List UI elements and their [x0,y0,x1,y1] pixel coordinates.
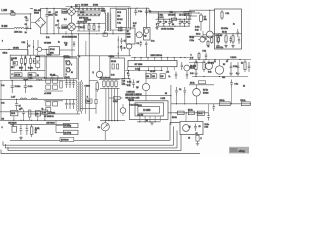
svg-text:BC548 1k: BC548 1k [84,19,91,21]
resistor R942 R943 pair [219,102,230,106]
resistor R111 [46,79,51,83]
svg-text:C5 1n: C5 1n [185,13,190,15]
component box U134 [12,126,17,132]
module outer box M801 [129,101,168,120]
wire [156,25,190,27]
IC102 [49,47,60,55]
capacitor C951b [194,124,197,132]
wire [145,71,147,84]
wire [0,81,2,121]
svg-text:1k: 1k [110,56,112,58]
component box U121 [122,79,130,85]
wire [44,77,63,79]
capacitor C802 [145,8,148,15]
transistor Q801 [136,32,142,38]
svg-text:C 22n: C 22n [190,40,195,42]
capacitor C871 [175,87,178,96]
resistor R105 [36,63,40,68]
svg-text:R 1k: R 1k [127,85,131,87]
transistor Q851 [184,65,190,71]
resistor R951 [196,135,199,141]
fuse F901 [11,13,15,16]
IC801 regulator [126,28,135,44]
capacitor C116 [72,99,75,109]
component box U131 [11,111,18,116]
module inner box [135,103,164,116]
wire [110,7,146,9]
svg-text:L7: L7 [29,45,31,47]
svg-text:500B: 500B [34,13,39,15]
transistor Q801b [127,44,132,49]
svg-text:C18: C18 [160,76,163,78]
svg-text:R 1 C 5: R 1 C 5 [158,17,163,19]
svg-text:1u: 1u [124,48,126,50]
wire [27,40,29,55]
wire [75,12,79,27]
transistor Q803 [142,83,149,90]
wire [146,8,148,27]
resistor R114 [53,85,58,89]
inductor L901 [14,27,24,28]
svg-text:1u: 1u [25,32,27,34]
svg-text:C2: C2 [196,133,198,135]
svg-text:RN 84: RN 84 [172,117,177,119]
enclosure line 3 [6,131,178,148]
transistor Q905 [183,125,190,132]
svg-text:C 1: C 1 [137,43,140,45]
capacitor C169 [168,19,171,26]
svg-text:R 22: R 22 [46,37,49,39]
capacitor C803 [140,41,143,47]
capacitor C113 [72,79,75,88]
wire [65,31,67,34]
wire [35,56,77,58]
svg-text:PS 1.5: PS 1.5 [117,19,122,21]
resistor R104 [36,56,40,61]
wire [111,88,113,120]
transistor Q131 [120,108,126,114]
wire [147,8,196,13]
wire [196,85,198,104]
wire [125,70,163,72]
wire [156,18,192,20]
wire [80,107,96,109]
svg-text:C 1uN: C 1uN [135,69,141,71]
svg-text:L 84: L 84 [166,71,169,73]
wire [56,120,64,132]
shield box SH2 [110,58,125,79]
svg-text:CN 704: CN 704 [64,56,70,58]
ground [155,26,158,29]
svg-text:CN 8: CN 8 [11,113,15,115]
svg-text:C3 R8 C4 100n: C3 R8 C4 100n [161,28,174,30]
wire [129,8,131,30]
svg-text:C2: C2 [133,25,135,27]
svg-text:4007 1k 22n: 4007 1k 22n [79,17,88,19]
svg-text:C 47u: C 47u [127,82,131,84]
svg-text:C 1u: C 1u [1,85,4,87]
svg-text:C5: C5 [120,47,122,49]
label box winding 2 [62,25,67,29]
svg-text:R5 1k: R5 1k [190,67,194,69]
svg-text:C3: C3 [159,22,161,24]
resistor R132 [31,124,33,137]
wire [231,88,233,104]
resistor R107 [117,64,119,69]
capacitor C922 [238,37,240,45]
ground [194,72,197,75]
wire [9,55,11,79]
svg-text:C5 84J 1N4148 R22: C5 84J 1N4148 R22 [62,36,77,38]
capacitor C932 [237,62,240,72]
wire [33,40,35,55]
svg-text:R 4: R 4 [64,19,67,21]
svg-text:C 84: C 84 [111,74,114,76]
svg-text:R 10k: R 10k [35,128,40,130]
capacitor C872 [184,87,187,96]
svg-text:1n: 1n [58,42,60,44]
capacitor C923 [229,36,231,43]
svg-text:D1 R3: D1 R3 [80,12,85,14]
wire [140,116,160,122]
wire [195,12,199,14]
svg-text:eBay: eBay [239,149,246,153]
svg-text:R5 2k D2 C9: R5 2k D2 C9 [78,21,88,23]
svg-text:R5: R5 [57,21,59,23]
wire [117,36,119,58]
wire [189,15,197,17]
transistor Q802 [144,29,149,34]
svg-text:(B PROG: (B PROG [61,140,69,142]
resistor R944 R945 pair [241,102,250,106]
resistor R905 [94,8,96,15]
svg-text:L901 2m: L901 2m [14,32,22,34]
svg-text:C8a: C8a [170,11,173,13]
wire [189,62,206,64]
component box U103 [28,73,36,77]
svg-text:C 47u: C 47u [28,86,33,88]
wire [89,80,97,82]
resistor R903 [86,8,88,15]
wire [44,90,63,92]
enclosure line 5 [1,150,200,154]
resistor R851 [170,18,179,20]
wire [110,29,130,31]
svg-text:C84: C84 [222,77,225,79]
wire [24,28,31,30]
capacitor C101 [11,81,14,94]
svg-text:C 1k: C 1k [226,13,230,15]
capacitor C115 [69,99,72,109]
svg-text:L84: L84 [146,76,149,78]
component box U122 [86,99,92,103]
resistor R106 [112,64,114,69]
resistor R906 [98,8,100,15]
capacitor C902 [25,26,28,31]
capacitor C158 [157,19,160,26]
wire [189,35,215,37]
wire [131,57,190,59]
inductor L103 [31,98,37,99]
component box U901 [197,111,204,115]
svg-text:C 100u: C 100u [15,86,21,88]
transformer winding W902 [68,23,76,31]
svg-text:C5: C5 [226,61,228,63]
svg-text:T2: T2 [76,6,78,8]
svg-text:1k: 1k [208,46,210,48]
svg-text:KN 7: KN 7 [11,67,15,69]
svg-text:ST 1286: ST 1286 [135,64,144,66]
wire [168,112,209,114]
svg-text:C 84: C 84 [22,42,26,44]
capacitor C862 [181,62,183,70]
svg-text:C7 100N 84: C7 100N 84 [44,116,53,118]
svg-text:C5: C5 [19,109,21,111]
wire [100,120,125,122]
wire [41,28,132,34]
relay box K901 [180,122,203,135]
svg-text:B: B [66,74,67,76]
wire [60,49,76,51]
wire [170,85,172,125]
wire [10,54,45,56]
svg-text:R 1k: R 1k [205,127,209,129]
svg-text:CN 100u: CN 100u [168,14,175,16]
svg-text:R 1k: R 1k [203,51,206,53]
wire [177,96,185,104]
wire [31,14,36,29]
wire [37,52,39,71]
capacitor C112 [69,79,72,88]
svg-text:4u7: 4u7 [137,82,140,84]
capacitor C103 [15,99,18,110]
transistor Q101 [37,47,41,51]
wire [145,91,147,101]
fuse F902 [75,4,79,8]
svg-text:C 84: C 84 [42,112,46,114]
wire [192,76,248,78]
resistor R946 [177,111,184,115]
svg-text:RN 84: RN 84 [137,105,142,107]
label box winding 1 [62,10,67,14]
wire [108,88,110,120]
resistor R115 [60,81,62,88]
svg-text:IC 803: IC 803 [143,109,151,112]
wire [100,55,131,57]
svg-text:R(0): R(0) [29,75,33,77]
wire [27,49,29,55]
svg-text:C 1u: C 1u [1,102,4,104]
svg-text:Q8: Q8 [144,35,146,37]
transistor Q103 [96,71,102,77]
svg-text:L 10u: L 10u [28,78,32,80]
svg-text:C 1u: C 1u [235,83,239,85]
IC851 ST1286 [128,61,177,67]
capacitor C133 [26,124,29,135]
resistor R913 [88,24,90,32]
resistor R932 [203,60,205,73]
svg-text:R5 1k: R5 1k [190,82,195,84]
svg-text:T4: T4 [13,63,15,65]
svg-text:E 368: E 368 [93,5,98,7]
wire [104,121,106,141]
resistor R924 [232,34,234,44]
connector P802 [64,130,79,134]
inductor L102 [36,79,42,80]
capacitor C921 [237,29,240,37]
resistor R117 [53,102,58,106]
enclosure line 4 [8,135,181,151]
svg-text:C5: C5 [199,126,201,128]
wire [128,67,175,71]
wire [109,8,111,30]
component box T901pin [103,33,107,36]
wire [71,34,73,58]
wire [0,80,77,82]
wire [127,8,129,28]
svg-text:R6: R6 [165,93,167,95]
wire [171,103,251,105]
component box U132 [35,111,40,116]
wire [189,9,215,11]
capacitor C184 [183,19,186,26]
resistor R121 [96,81,98,93]
component box SH1a [66,61,70,66]
capacitor C904 [52,8,55,20]
svg-text:C 47u: C 47u [195,27,200,29]
capacitor C903 [45,8,48,22]
svg-text:BR 1N: BR 1N [50,74,56,76]
svg-text:1n: 1n [233,24,235,26]
svg-text:CN 84: CN 84 [3,52,8,54]
resistor R131 [29,110,31,117]
wire [209,10,211,31]
wire [215,33,242,35]
svg-text:C2 1n R4: C2 1n R4 [216,35,223,37]
svg-text:C2: C2 [179,89,181,91]
svg-text:7805: 7805 [87,101,91,103]
component box U851 [146,74,151,78]
component box U104 [52,76,58,79]
svg-text:R 10k: R 10k [28,67,33,69]
svg-text:C1: C1 [11,59,13,61]
svg-text:L 220: L 220 [2,10,8,12]
wire [77,15,100,17]
capacitor C114 [65,99,68,109]
wire [99,78,120,80]
svg-text:CN 10k: CN 10k [13,48,19,50]
svg-text:R8: R8 [165,22,167,24]
svg-text:(P #756): (P #756) [64,125,71,127]
motor M801 [101,123,109,131]
resistor R927 [221,10,223,20]
svg-text:C 1u: C 1u [64,43,67,45]
svg-text:(B #756): (B #756) [64,132,71,134]
resistor R134 [115,81,117,87]
svg-text:84: 84 [146,120,148,122]
resistor R113 [46,85,51,89]
svg-text:IC 84: IC 84 [50,49,54,51]
svg-text:C5 1806: C5 1806 [81,5,88,7]
resistor R922 [217,34,219,44]
wire [77,55,100,57]
svg-text:PS 5: PS 5 [117,12,121,14]
capacitor C106 [73,41,75,47]
svg-text:C 84: C 84 [190,73,193,75]
wire [146,47,148,58]
svg-text:D2 R7: D2 R7 [80,27,85,29]
wire [71,7,73,8]
shield box SH1 [64,58,77,79]
capacitor C954 [120,38,122,44]
resistor R934 [198,52,200,60]
resistor R947 [188,111,194,115]
wire [109,97,111,99]
svg-text:1u: 1u [123,83,125,85]
capacitor C955 [120,45,122,51]
svg-text:1k: 1k [24,64,26,66]
svg-text:C 1u: C 1u [117,22,121,24]
svg-text:DE 84: DE 84 [111,61,116,63]
wire [158,13,189,19]
wire [0,119,70,121]
IC803 [138,107,160,114]
resistor R904 [90,8,92,15]
svg-text:C4: C4 [171,22,173,24]
resistor R925 [211,36,213,44]
svg-text:C5: C5 [124,41,126,43]
optocoupler U902 [200,37,205,42]
capacitor C952c [207,113,210,121]
transformer winding W901 [68,8,76,16]
capacitor C189 [188,19,191,26]
resistor R928 [207,40,209,47]
wire [77,30,100,32]
svg-text:1k: 1k [214,61,216,63]
svg-text:1k: 1k [35,132,37,134]
wire [189,84,214,86]
winding W903 [67,61,71,65]
wire [125,95,171,97]
resistor R133 [111,81,113,87]
svg-text:RV 1k: RV 1k [203,89,208,91]
resistor R123 [95,99,97,103]
wire [0,111,52,113]
wire [76,7,105,9]
resistor R901 [78,8,80,15]
svg-text:NR 7: NR 7 [19,67,23,69]
svg-text:C5 84J: C5 84J [150,71,155,73]
resistor R103 [30,59,32,64]
wire [78,34,80,81]
wire [137,121,160,123]
resistor R102 [24,59,26,64]
svg-text:~ =: ~ = [30,8,32,10]
component box X852 [187,16,190,20]
resistor R931 [195,60,197,73]
connector box CN901 [215,9,242,49]
svg-text:1k: 1k [241,62,243,64]
capacitor C861 [127,71,129,80]
svg-text:R 22: R 22 [195,29,199,31]
winding W904 [67,68,71,72]
diode D902 [83,24,85,32]
ground [216,45,219,48]
connector P801 [64,123,79,127]
svg-text:R5 1k: R5 1k [47,54,51,56]
svg-text:R1 R2 R3 R4: R1 R2 R3 R4 [100,77,110,79]
svg-text:1 W: 1 W [190,58,193,60]
